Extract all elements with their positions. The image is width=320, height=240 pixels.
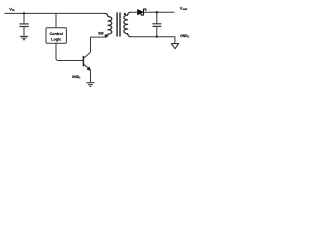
wire input rail + transformer primary winding L1 + wire to switch node bbox=[5, 13, 112, 52]
svg-text:GND1: GND1 bbox=[72, 75, 81, 80]
wire rail to control logic bbox=[55, 13, 57, 27]
capacitor C2 (output) bbox=[152, 12, 161, 36]
wire diode to output bbox=[144, 11, 175, 13]
ground GND1 (earth) bbox=[86, 83, 94, 87]
ground GND2 (signal triangle) bbox=[171, 44, 178, 49]
node Vin label bbox=[9, 6, 15, 12]
junction dot output cap bottom bbox=[156, 35, 158, 37]
transformer core T1 bbox=[117, 12, 120, 36]
diode D1 (schottky) bbox=[138, 9, 146, 15]
svg-text:GND2: GND2 bbox=[180, 34, 189, 39]
svg-text:Logic: Logic bbox=[51, 38, 61, 42]
secondary phase dot bbox=[124, 13, 126, 15]
svg-text:Vout: Vout bbox=[180, 5, 187, 11]
svg-text:Control: Control bbox=[49, 32, 63, 36]
svg-text:SW: SW bbox=[98, 31, 104, 35]
svg-text:Vin: Vin bbox=[9, 6, 15, 12]
transformer primary winding L1 (overdraw) bbox=[105, 13, 112, 37]
capacitor C1 (input) bbox=[19, 13, 28, 36]
control logic block U1 bbox=[46, 28, 66, 44]
junction dot at input cap bbox=[23, 12, 25, 14]
transistor Q1 (NPN) bbox=[83, 52, 91, 82]
junction dot output cap top bbox=[156, 11, 159, 14]
ground (input, earth) bbox=[20, 36, 28, 39]
transformer secondary winding L2 (overdraw) bbox=[124, 12, 131, 36]
wire control logic to transistor base bbox=[56, 43, 83, 61]
primary phase dot bbox=[105, 34, 108, 37]
transformer secondary winding L2 + output wires bbox=[124, 12, 175, 43]
